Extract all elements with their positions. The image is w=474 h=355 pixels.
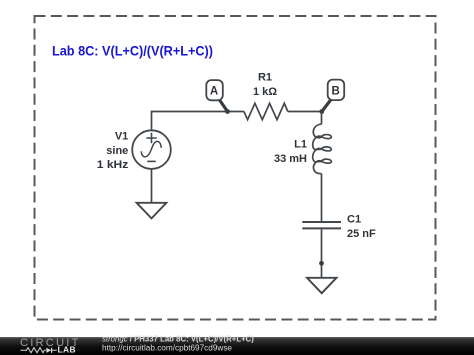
- svg-text:http://circuitlab.com/cpbt697c: http://circuitlab.com/cpbt697cd9wse: [102, 344, 232, 353]
- junction below C1: [319, 261, 324, 266]
- CircuitLab logo: [20, 337, 81, 355]
- wire R1 to node B: [288, 111, 322, 113]
- svg-text:A: A: [210, 86, 218, 98]
- ground below C1: [307, 278, 337, 293]
- node B junction dot: [319, 109, 324, 114]
- svg-text:25 nF: 25 nF: [347, 228, 376, 240]
- svg-text:C1: C1: [347, 214, 361, 226]
- label L1 33 mH: [274, 139, 307, 165]
- inductor L1: [313, 124, 332, 173]
- wire node B to L1: [321, 112, 323, 125]
- svg-text:LAB: LAB: [58, 344, 76, 354]
- node A junction dot: [225, 109, 230, 114]
- footer bar: [0, 337, 474, 355]
- node A label: [206, 80, 227, 111]
- label R1 1 kΩ: [253, 72, 277, 98]
- wire V1 top to node A to resistor: [152, 112, 244, 131]
- node B label: [322, 80, 344, 112]
- svg-text:Lab 8C: V(L+C)/(V(R+L+C)): Lab 8C: V(L+C)/(V(R+L+C)): [52, 43, 213, 59]
- resistor R1: [244, 103, 288, 119]
- wire L1 to C1: [321, 174, 323, 221]
- footer text: [102, 335, 254, 353]
- capacitor C1: [302, 222, 341, 228]
- svg-text:strongc / PH337 Lab 8C: V(L+C): strongc / PH337 Lab 8C: V(L+C)/V(R+L+C): [102, 335, 254, 344]
- wire C1 to ground junction: [321, 229, 323, 277]
- svg-text:R1: R1: [258, 72, 272, 84]
- svg-text:33 mH: 33 mH: [274, 153, 307, 165]
- voltage source V1: [132, 130, 171, 169]
- ground below V1: [137, 203, 167, 219]
- svg-text:1 kΩ: 1 kΩ: [253, 86, 277, 98]
- wire V1 bottom to ground: [151, 169, 153, 203]
- svg-text:B: B: [332, 85, 340, 97]
- label V1 sine 1 kHz: [97, 130, 129, 171]
- label C1 25 nF: [347, 214, 376, 241]
- svg-text:L1: L1: [294, 139, 307, 151]
- svg-text:V1: V1: [115, 130, 128, 142]
- svg-text:sine: sine: [106, 145, 128, 157]
- svg-text:1 kHz: 1 kHz: [97, 159, 129, 171]
